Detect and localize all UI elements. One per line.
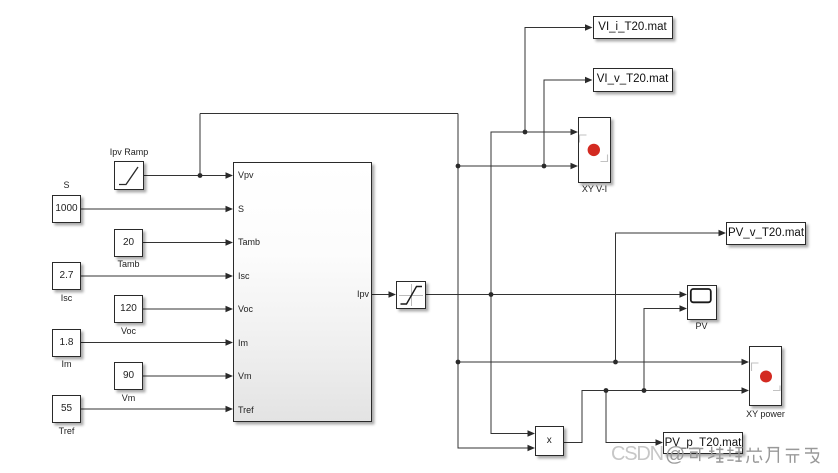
watermark at-sign — [665, 444, 685, 467]
junction node power to PV_p file — [604, 388, 609, 393]
junction node Vpv to VI_v file — [542, 164, 547, 169]
wire power drop to PV_p_T20.mat — [606, 391, 656, 443]
wire power riser to PV scope port 2 — [644, 309, 680, 391]
wire Im constant to Im port — [81, 342, 226, 344]
wire ramp output to Vpv port — [144, 175, 226, 177]
label XY V-I — [550, 184, 640, 194]
wire Vm constant to Vm port — [143, 375, 226, 377]
label Ipv Ramp — [84, 147, 174, 157]
watermark CSDN — [611, 443, 663, 466]
wire Vpv riser from junction up — [199, 114, 201, 176]
wire Ipv saturation output to PV scope port 1 — [426, 294, 680, 296]
wire Vpv drop to XY V-I level — [457, 114, 459, 167]
arrowhead into Vpv port — [226, 172, 234, 179]
PV scope — [687, 285, 717, 320]
wire Vpv to XY power port 1 — [458, 361, 742, 363]
wire Tamb constant to Tamb port — [143, 242, 226, 244]
wire Vpv riser to VI_v_T20.mat — [544, 80, 586, 166]
label Isc — [22, 293, 112, 303]
junction node Ipv after saturation — [489, 292, 494, 297]
to-file block VI_i_T20.mat — [593, 16, 673, 40]
arrowhead into S port — [226, 206, 234, 213]
arrowhead into Vm port — [226, 373, 234, 380]
port label Vm — [238, 371, 252, 381]
port label Vpv — [238, 170, 254, 180]
arrowhead into Tref port — [226, 406, 234, 413]
port label Voc — [238, 304, 253, 314]
constant Voc = 120 — [114, 295, 143, 323]
label Tref — [22, 426, 112, 436]
saturation block — [396, 281, 426, 309]
label Im — [22, 359, 112, 369]
arrowhead into product input 2 — [528, 445, 536, 452]
wire Isc constant to Isc port — [81, 275, 226, 277]
arrowhead into XY power port 2 — [742, 387, 750, 394]
watermark 可编程芯片开发 (drawn glyphs) — [688, 444, 838, 470]
arrowhead into PV scope port 2 — [680, 305, 688, 312]
junction node Ipv to VI_i file — [523, 130, 528, 135]
port label Tamb — [238, 237, 260, 247]
wire Vpv to XY V-I port 2 — [458, 165, 571, 167]
constant Isc = 2.7 — [52, 262, 81, 290]
arrowhead into XY V-I port 1 — [571, 129, 579, 136]
constant Im = 1.8 — [52, 329, 81, 357]
wire Vpv riser to PV_v_T20.mat — [616, 233, 720, 362]
port label Tref — [238, 405, 254, 415]
port label Im — [238, 338, 248, 348]
label S — [22, 180, 112, 190]
label Tamb — [84, 259, 174, 269]
label PV — [657, 321, 747, 331]
XY power graph scope — [749, 346, 782, 407]
wire Vpv drop to lower run — [457, 166, 459, 362]
port label Isc — [238, 271, 250, 281]
port label Ipv output — [357, 289, 369, 299]
wire S constant to S port — [81, 208, 226, 210]
to-file block VI_v_T20.mat — [593, 68, 673, 92]
wire Ipv subsystem output to saturation — [372, 294, 389, 296]
wire Ipv drop to product input 1 — [491, 295, 528, 434]
wire Voc constant to Voc port — [143, 308, 226, 310]
constant Tamb = 20 — [114, 229, 143, 257]
junction node Vpv at XY power level — [456, 360, 461, 365]
product block — [535, 426, 564, 456]
arrowhead into Tamb port — [226, 239, 234, 246]
wire Vpv top run — [200, 113, 458, 115]
XY V-I graph scope — [578, 117, 611, 183]
arrowhead into Isc port — [226, 273, 234, 280]
wire product output to XY power port 2 — [564, 391, 743, 443]
arrowhead into VI_i_T20.mat — [585, 24, 593, 31]
junction node ramp/Vpv branch — [198, 173, 203, 178]
wire Tref constant to Tref port — [81, 408, 226, 410]
label Voc — [84, 326, 174, 336]
arrowhead into saturation — [389, 291, 397, 298]
arrowhead into VI_v_T20.mat — [585, 77, 593, 84]
arrowhead into Im port — [226, 339, 234, 346]
junction node power to PV scope — [642, 388, 647, 393]
arrowhead into PV_p_T20.mat — [656, 439, 664, 446]
ramp source Ipv Ramp — [114, 161, 144, 190]
wire Vpv drop to product input 2 — [458, 362, 528, 448]
to-file block PV_v_T20.mat — [726, 222, 806, 245]
arrowhead into product input 1 — [528, 430, 536, 437]
arrowhead into XY power port 1 — [742, 359, 750, 366]
wire Ipv riser to VI_i_T20.mat — [525, 28, 586, 133]
label Vm — [84, 393, 174, 403]
arrowhead into Voc port — [226, 306, 234, 313]
wire Ipv riser to XY V-I port 1 — [491, 132, 571, 295]
label XY power — [721, 409, 811, 419]
junction node Vpv at XY V-I level — [456, 164, 461, 169]
constant Vm = 90 — [114, 362, 143, 390]
arrowhead into XY V-I port 2 — [571, 163, 579, 170]
port label S — [238, 204, 244, 214]
arrowhead into PV_v_T20.mat — [719, 230, 727, 237]
to-file block PV_p_T20.mat — [663, 432, 743, 455]
arrowhead into PV scope port 1 — [680, 291, 688, 298]
PV model subsystem U1 — [233, 162, 372, 422]
constant Tref = 55 — [52, 395, 81, 423]
constant S = 1000 — [52, 195, 81, 223]
junction node Vpv to PV_v file — [613, 360, 618, 365]
